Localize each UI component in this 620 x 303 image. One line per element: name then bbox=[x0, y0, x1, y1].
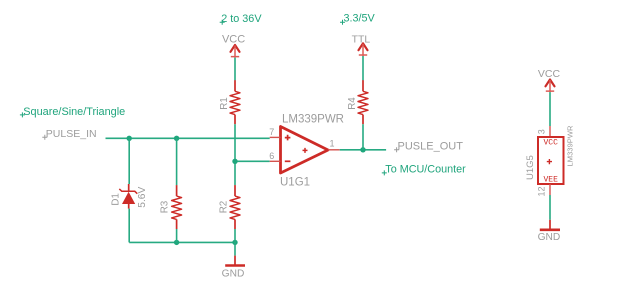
svg-text:VCC: VCC bbox=[543, 138, 558, 147]
pin 7 stub bbox=[270, 136, 281, 138]
comparator plus mark bbox=[303, 148, 308, 153]
wire R3 top bbox=[176, 138, 178, 185]
minus input symbol bbox=[285, 160, 291, 162]
svg-text:VEE: VEE bbox=[543, 176, 558, 185]
svg-text:D1: D1 bbox=[111, 193, 122, 206]
power flag VCC (right) bbox=[538, 68, 561, 92]
svg-text:R1: R1 bbox=[219, 97, 230, 110]
wire D1 branch top bbox=[128, 138, 130, 184]
wire VCC to R1 bbox=[234, 58, 236, 81]
svg-text:12: 12 bbox=[537, 186, 547, 196]
wire pin 12 to ground bbox=[549, 195, 551, 220]
node junction R2 bottom bbox=[232, 240, 237, 245]
svg-text:2 to 36V: 2 to 36V bbox=[221, 13, 262, 25]
pin 1 output stub bbox=[328, 149, 340, 151]
wire node to R2 top bbox=[234, 161, 236, 185]
op-amp U1G1 LM339PWR bbox=[269, 114, 344, 189]
svg-text:Square/Sine/Triangle: Square/Sine/Triangle bbox=[23, 106, 125, 118]
resistor R2 bbox=[218, 185, 240, 229]
annotation "Square/Sine/Triangle" bbox=[20, 106, 125, 118]
node junction output/R4 bbox=[360, 147, 365, 152]
svg-text:1: 1 bbox=[330, 138, 335, 148]
pin 3 stub bbox=[549, 126, 551, 137]
pin 6 stub bbox=[270, 160, 281, 162]
wire VCC to power pin 3 bbox=[549, 92, 551, 126]
svg-text:VCC: VCC bbox=[222, 34, 245, 46]
node junction pin6/divider bbox=[232, 159, 237, 164]
node junction R3 bottom bbox=[174, 240, 179, 245]
svg-text:R2: R2 bbox=[218, 201, 229, 214]
resistor R4 bbox=[347, 80, 368, 124]
power flag TTL bbox=[352, 34, 371, 56]
svg-text:3: 3 bbox=[537, 129, 547, 134]
svg-text:GND: GND bbox=[538, 232, 561, 243]
power unit U1G5 LM339PWR bbox=[525, 125, 574, 196]
ground (left GND) bbox=[222, 256, 245, 280]
svg-text:3.3/5V: 3.3/5V bbox=[344, 13, 376, 25]
svg-text:R3: R3 bbox=[160, 200, 171, 213]
net label PUSLE_OUT bbox=[394, 140, 463, 152]
wire TTL to R4 bbox=[362, 56, 364, 80]
power flag VCC (left) bbox=[222, 34, 245, 58]
wire R2 bottom bbox=[234, 229, 236, 256]
svg-text:U1G1: U1G1 bbox=[280, 176, 310, 188]
annotation "3.3/5V" bbox=[340, 13, 376, 25]
wire D1 bottom bbox=[128, 209, 130, 243]
wire R1 bottom down through pin7 crossing to node bbox=[234, 124, 236, 161]
svg-text:U1G5: U1G5 bbox=[525, 155, 536, 180]
zener diode D1 bbox=[111, 184, 148, 209]
wire bottom horizontal bbox=[129, 241, 235, 243]
wire R4 bottom to output node bbox=[362, 124, 364, 150]
ground (right GND) bbox=[538, 220, 561, 243]
annotation "To MCU/Counter" bbox=[382, 163, 466, 175]
svg-text:5.6V: 5.6V bbox=[137, 187, 148, 208]
svg-text:LM339PWR: LM339PWR bbox=[282, 114, 344, 126]
wire node to pin 6 bbox=[235, 160, 270, 162]
svg-text:7: 7 bbox=[269, 127, 274, 137]
resistor R1 bbox=[219, 80, 240, 124]
plus input symbol bbox=[285, 135, 291, 141]
wire PULSE_IN horizontal to pin 7 bbox=[106, 137, 270, 139]
node junction at D1 branch bbox=[127, 136, 132, 141]
pin 12 stub bbox=[549, 184, 551, 195]
svg-text:R4: R4 bbox=[347, 97, 358, 110]
net label PULSE_IN bbox=[42, 128, 96, 140]
svg-text:PULSE_IN: PULSE_IN bbox=[46, 128, 97, 140]
svg-text:VCC: VCC bbox=[538, 68, 561, 80]
node junction at R3 branch bbox=[174, 136, 179, 141]
wire R3 bottom bbox=[176, 229, 178, 242]
svg-text:PUSLE_OUT: PUSLE_OUT bbox=[398, 140, 464, 152]
svg-text:To MCU/Counter: To MCU/Counter bbox=[385, 163, 466, 175]
annotation "2 to 36V" bbox=[220, 13, 263, 25]
svg-text:GND: GND bbox=[222, 269, 245, 280]
resistor R3 bbox=[160, 185, 182, 229]
svg-text:TTL: TTL bbox=[352, 34, 371, 45]
svg-text:6: 6 bbox=[269, 151, 274, 161]
wire output horizontal bbox=[340, 149, 386, 151]
svg-text:LM339PWR: LM339PWR bbox=[565, 125, 574, 166]
